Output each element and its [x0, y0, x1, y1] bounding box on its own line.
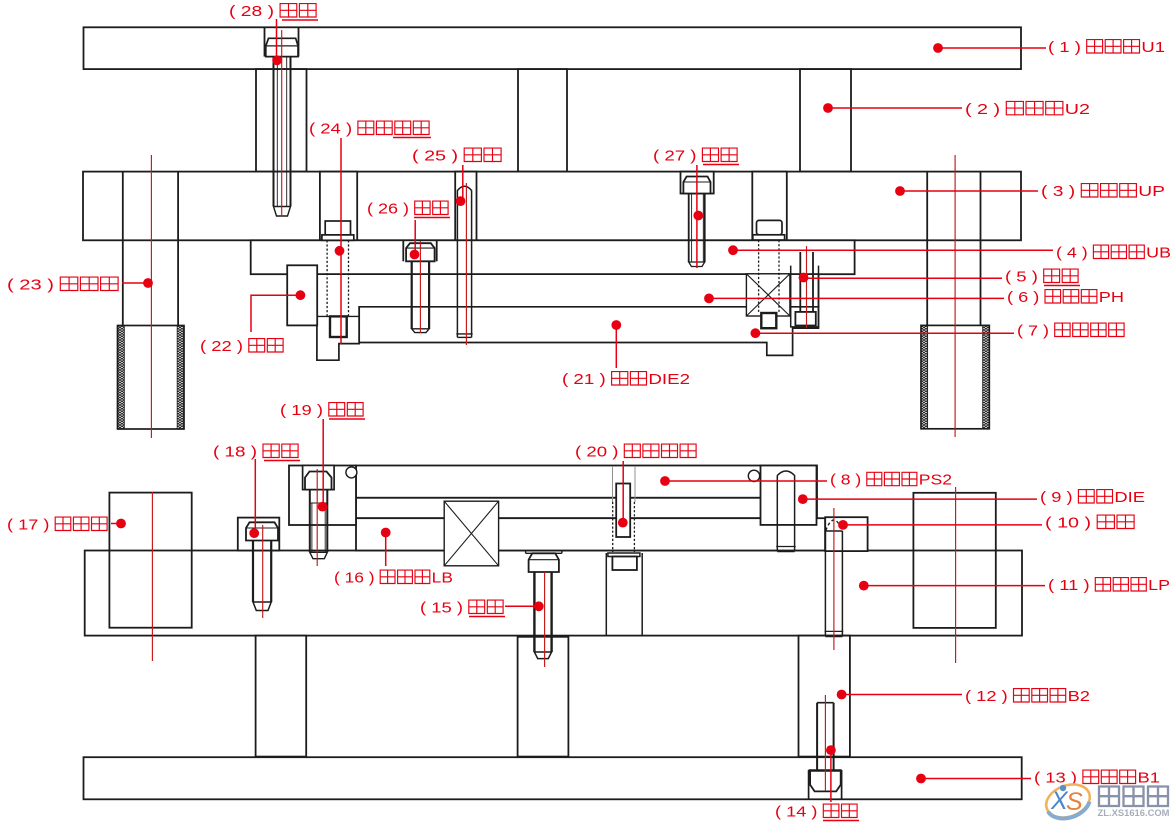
- svg-text:( 21 ): ( 21 ): [562, 371, 606, 388]
- svg-text:( 7 ): ( 7 ): [1017, 323, 1049, 340]
- svg-text:( 26 ): ( 26 ): [367, 201, 409, 218]
- svg-text:( 19 ): ( 19 ): [280, 402, 323, 419]
- svg-text:LB: LB: [432, 570, 453, 587]
- svg-text:( 15 ): ( 15 ): [420, 600, 463, 617]
- svg-text:U1: U1: [1141, 39, 1165, 56]
- svg-text:( 9 ): ( 9 ): [1040, 489, 1073, 506]
- svg-text:( 3 ): ( 3 ): [1041, 183, 1075, 200]
- svg-text:( 20 ): ( 20 ): [575, 444, 618, 461]
- svg-text:DIE2: DIE2: [648, 371, 690, 388]
- svg-text:ZL.XS1616.COM: ZL.XS1616.COM: [1098, 808, 1170, 818]
- svg-text:( 5 ): ( 5 ): [1005, 269, 1038, 286]
- svg-text:( 17 ): ( 17 ): [7, 517, 49, 534]
- svg-text:( 16 ): ( 16 ): [334, 570, 375, 587]
- svg-text:U2: U2: [1065, 101, 1090, 118]
- svg-text:( 6 ): ( 6 ): [1007, 289, 1039, 306]
- svg-text:( 2 ): ( 2 ): [965, 101, 1000, 118]
- svg-text:UB: UB: [1146, 245, 1171, 262]
- svg-text:( 22 ): ( 22 ): [200, 338, 243, 355]
- svg-text:( 14 ): ( 14 ): [775, 804, 818, 821]
- svg-text:( 24 ): ( 24 ): [309, 121, 352, 138]
- svg-text:B2: B2: [1068, 688, 1090, 705]
- svg-text:( 25 ): ( 25 ): [412, 148, 458, 165]
- svg-text:( 27 ): ( 27 ): [653, 148, 697, 165]
- svg-text:DIE: DIE: [1114, 489, 1145, 506]
- svg-text:( 28 ): ( 28 ): [229, 3, 274, 20]
- svg-text:UP: UP: [1138, 183, 1165, 200]
- svg-text:( 8 ): ( 8 ): [830, 472, 861, 489]
- svg-text:( 12 ): ( 12 ): [965, 688, 1008, 705]
- svg-text:( 4 ): ( 4 ): [1056, 245, 1088, 262]
- svg-text:( 23 ): ( 23 ): [7, 277, 54, 294]
- svg-text:( 18 ): ( 18 ): [213, 444, 257, 461]
- svg-text:( 11 ): ( 11 ): [1048, 577, 1090, 594]
- svg-text:LP: LP: [1148, 577, 1170, 594]
- svg-text:S: S: [1066, 788, 1083, 816]
- svg-text:B1: B1: [1138, 770, 1161, 787]
- svg-text:PH: PH: [1099, 289, 1124, 306]
- svg-text:( 10 ): ( 10 ): [1045, 515, 1091, 532]
- svg-text:( 1 ): ( 1 ): [1048, 39, 1081, 56]
- svg-text:PS2: PS2: [919, 472, 952, 489]
